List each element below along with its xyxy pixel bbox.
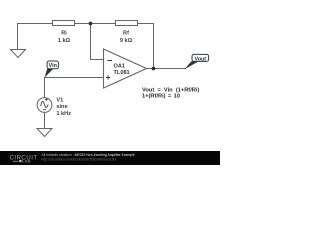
svg-text:V1: V1	[56, 97, 63, 103]
svg-text:1 kHz: 1 kHz	[56, 111, 71, 117]
svg-text:1+(Rf/Ri) = 10: 1+(Rf/Ri) = 10	[142, 93, 180, 99]
svg-text:Rf: Rf	[123, 31, 129, 37]
svg-text:sine: sine	[56, 104, 67, 110]
svg-text:TL081: TL081	[114, 70, 130, 76]
svg-text:Vin: Vin	[49, 63, 57, 69]
svg-text:Vout: Vout	[195, 56, 207, 62]
svg-text:9 kΩ: 9 kΩ	[120, 38, 133, 44]
svg-text:OA1: OA1	[114, 63, 126, 69]
svg-text:1 kΩ: 1 kΩ	[58, 38, 71, 44]
svg-text:All editable variation : ME319: All editable variation : ME319 Non-Inver…	[42, 153, 135, 157]
svg-text:http://circuitlab.com/circuit/: http://circuitlab.com/circuit/ze9t75dxzv…	[42, 157, 117, 161]
svg-text:LAB: LAB	[22, 159, 30, 163]
svg-text:Ri: Ri	[61, 31, 67, 37]
